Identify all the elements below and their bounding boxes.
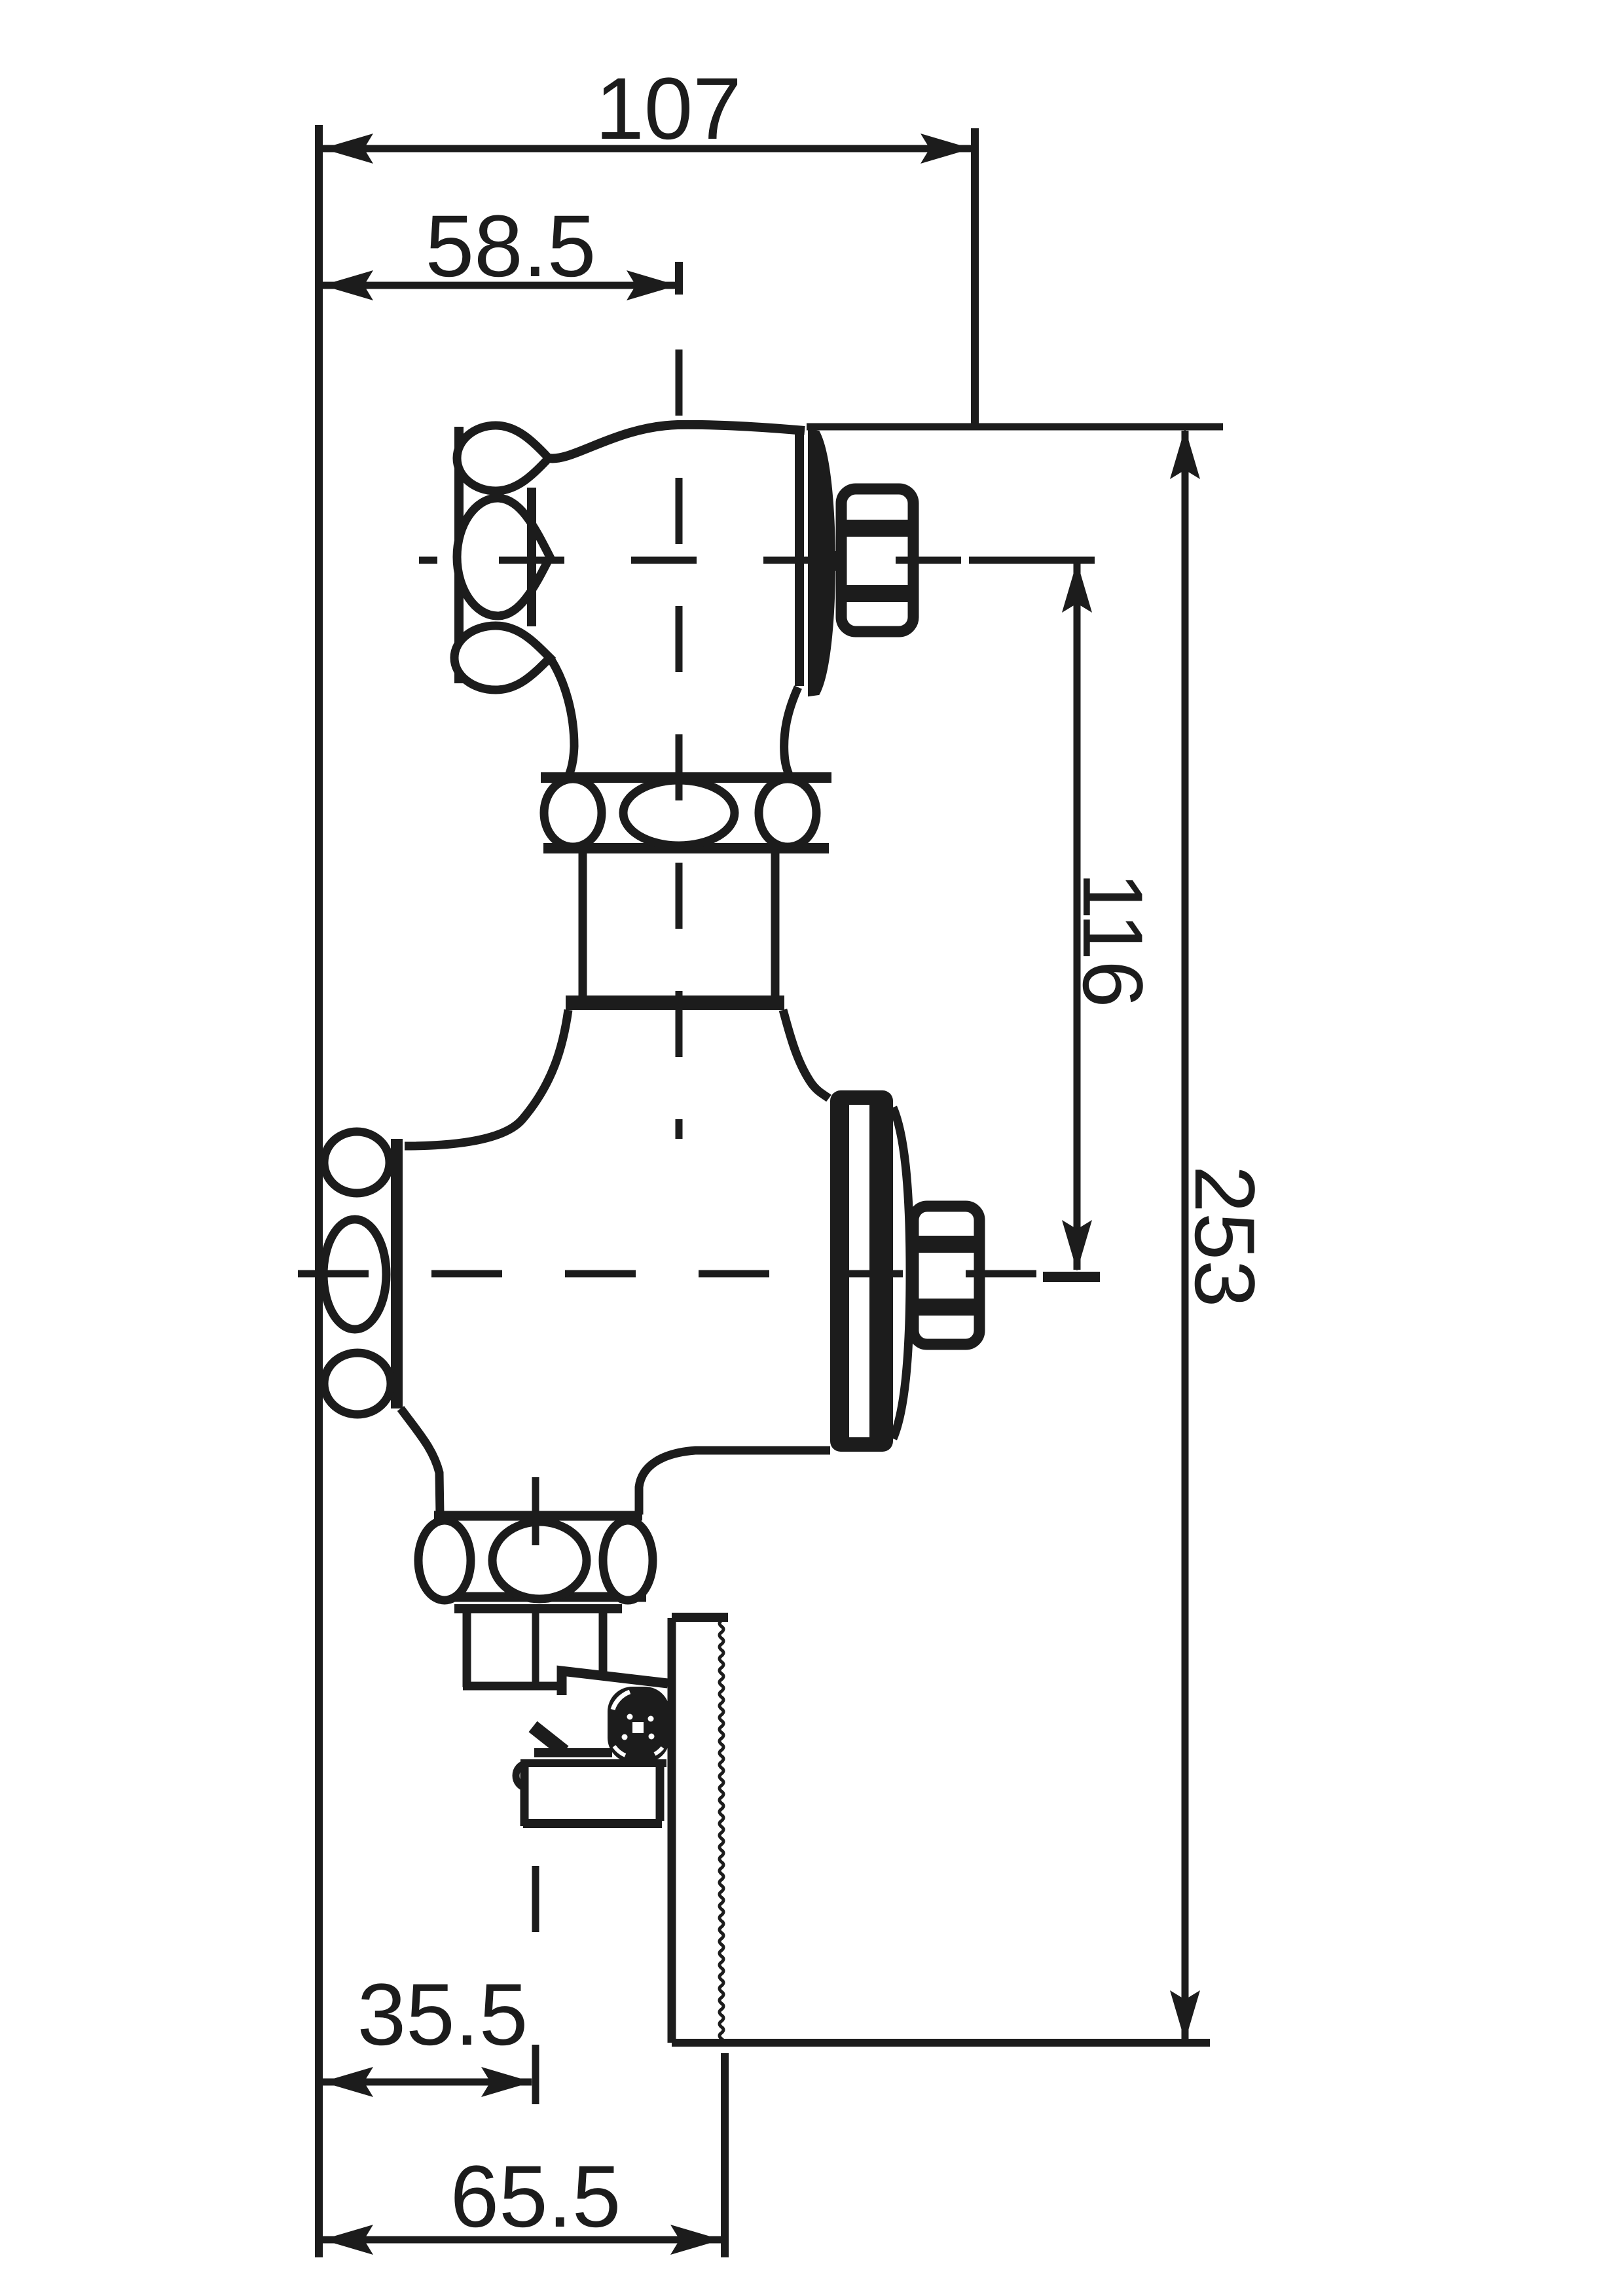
head rear flange (filled disc edge-on) xyxy=(809,431,834,695)
inlet fitting right bar xyxy=(391,1139,403,1408)
dimension 35.5 line xyxy=(323,2079,532,2086)
wall plate left face xyxy=(668,1618,676,2043)
extension stub right of 58.5 xyxy=(675,262,683,295)
union nut band middle ellipse xyxy=(623,780,735,846)
body lower-left outline from inlet xyxy=(401,1408,440,1515)
knob knurl ellipse bottom xyxy=(454,626,550,690)
extension line right of 65.5 xyxy=(721,2053,729,2257)
valve head: knurled knob left wall xyxy=(454,427,464,683)
knob right bar xyxy=(527,488,536,626)
horizontal centerline of valve head xyxy=(419,557,437,564)
svg-text:35.5: 35.5 xyxy=(357,1966,528,2064)
vertical centerline of valve head xyxy=(676,350,683,1139)
union nut band right ellipse xyxy=(759,779,816,847)
inlet knurl ellipse middle xyxy=(323,1219,386,1329)
outlet union nut bottom edge xyxy=(437,1592,646,1602)
outlet union nut top edge xyxy=(434,1511,642,1521)
outlet nipple right wall xyxy=(599,1611,608,1678)
wall plate top edge xyxy=(672,1613,728,1622)
inlet knurl ellipse bottom xyxy=(324,1353,391,1414)
extension line from head top to 253 xyxy=(807,423,1223,431)
outlet nipple bottom edge xyxy=(463,1682,558,1691)
push-button flange (edge-on) xyxy=(830,1090,893,1452)
body upper-right outline to flange xyxy=(783,1010,829,1098)
union nut band bottom edge xyxy=(543,843,829,853)
svg-text:58.5: 58.5 xyxy=(426,198,596,295)
roller support line xyxy=(534,1748,612,1757)
outlet union nut left ellipse xyxy=(418,1520,471,1600)
bracket top edge xyxy=(520,1759,666,1767)
dimension 107 line xyxy=(323,145,971,152)
lever arm diagonal xyxy=(533,1727,564,1751)
knob knurl ellipse middle xyxy=(457,498,550,616)
svg-text:253: 253 xyxy=(1177,1166,1273,1308)
bracket right wall xyxy=(656,1763,665,1821)
head lower-left S-curve to union nut xyxy=(550,658,574,783)
neck bottom collar (thick) xyxy=(566,996,784,1010)
extension tick at 116 bottom xyxy=(1043,1272,1100,1282)
washer line under outlet nut xyxy=(454,1604,622,1613)
wall plate hatched break line xyxy=(720,1621,723,2045)
spout slanted top edge xyxy=(562,1671,668,1695)
extension line from head axis to 116 xyxy=(969,557,1095,564)
svg-text:116: 116 xyxy=(1065,872,1161,1007)
union nut band left ellipse xyxy=(544,779,602,847)
neck right wall xyxy=(771,851,780,997)
roller wheel housing (filled) xyxy=(608,1687,670,1763)
hex nut on push-button xyxy=(913,1206,979,1344)
outlet nipple left wall xyxy=(463,1611,471,1687)
roller wheel details xyxy=(613,1692,630,1710)
wall bottom line / 253 reference xyxy=(672,2039,1210,2047)
neck left wall xyxy=(579,851,587,997)
svg-text:107: 107 xyxy=(595,60,742,158)
dimension 253 line xyxy=(1182,431,1189,2039)
head lower-right S-curve to union nut xyxy=(784,687,798,783)
outlet union nut middle ellipse xyxy=(492,1522,587,1599)
valve head top outline and right face xyxy=(549,425,805,459)
vertical centerline of bottom outlet xyxy=(532,1477,539,1545)
union nut band below head: top edge xyxy=(541,772,831,783)
bracket left wall with tab xyxy=(516,1763,528,1788)
body upper-left outline to inlet xyxy=(405,1010,568,1146)
knob knurl ellipse top xyxy=(457,425,549,491)
dimension 58.5 line xyxy=(323,282,677,289)
body lower-right outline xyxy=(639,1450,830,1515)
collar between flange and nut xyxy=(831,551,843,571)
outlet union nut right ellipse xyxy=(603,1520,653,1600)
left extension line (datum) xyxy=(315,125,323,2257)
svg-text:65.5: 65.5 xyxy=(450,2148,621,2246)
push-button dome bulge xyxy=(893,1107,910,1439)
dimension 65.5 line xyxy=(323,2236,721,2244)
horizontal centerline of valve body xyxy=(298,1270,1041,1278)
hex nut on head rear xyxy=(841,489,913,632)
bracket bottom edge xyxy=(523,1819,662,1828)
dimension 116 line xyxy=(1074,563,1081,1270)
inlet knurl ellipse top xyxy=(324,1132,390,1193)
extension line right of 107 xyxy=(971,128,979,427)
